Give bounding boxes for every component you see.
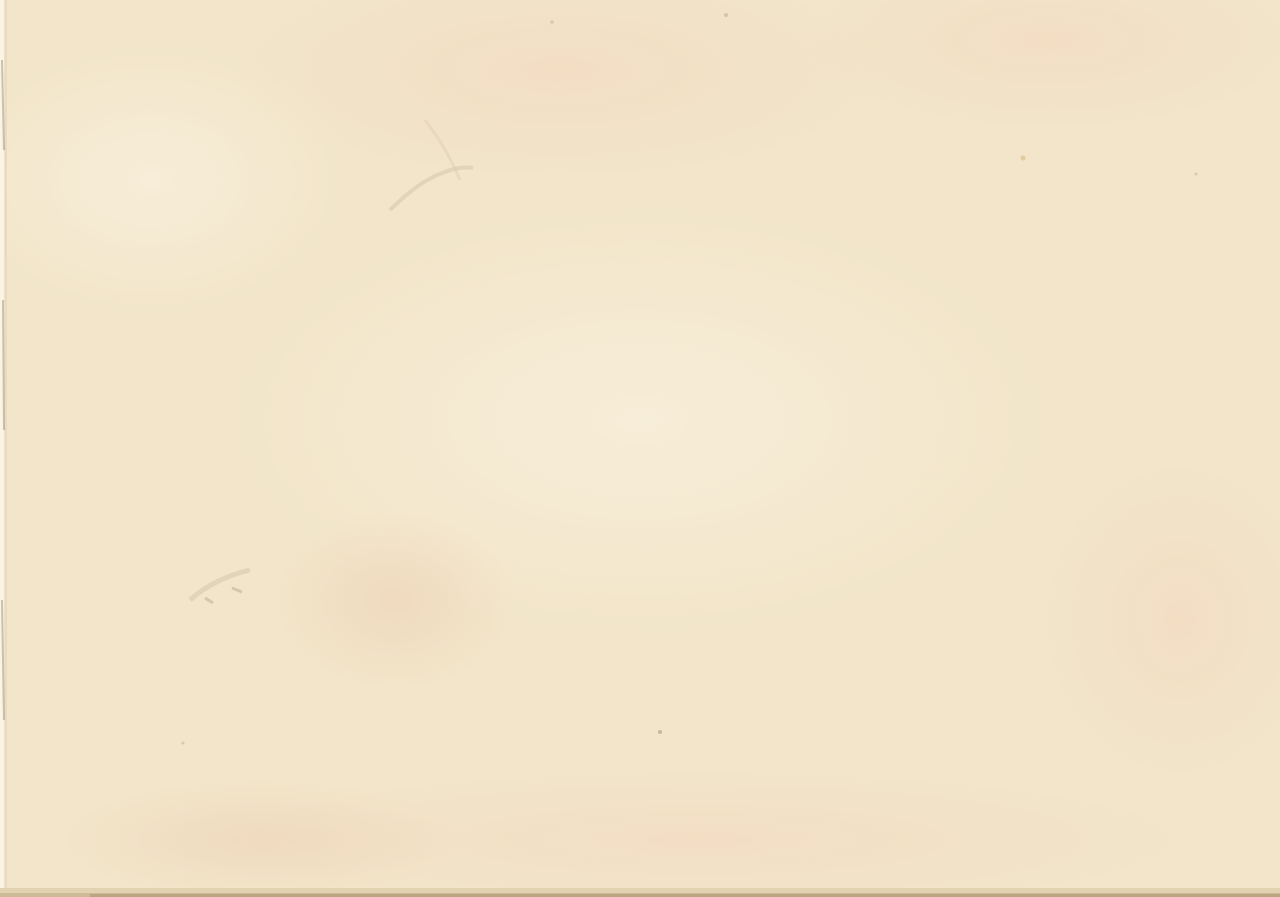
bottom scan edge: [0, 888, 1280, 897]
faint pencil smudges: [182, 13, 1198, 745]
left paper edge: [0, 0, 5, 897]
